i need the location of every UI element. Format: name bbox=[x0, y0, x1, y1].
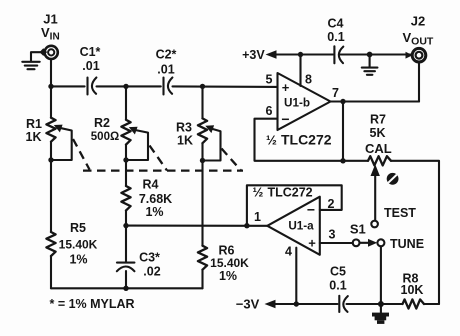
svg-text:10K: 10K bbox=[401, 283, 424, 297]
wire pin 4 down to -3V rail bbox=[295, 248, 297, 304]
svg-text:R3: R3 bbox=[176, 121, 192, 135]
+3V supply arrow bbox=[242, 48, 411, 62]
wire R2 top bbox=[125, 86, 127, 119]
dashed gang link R2 bbox=[150, 146, 168, 171]
ground at J1 bbox=[22, 52, 44, 69]
wire pin 7 output bbox=[331, 100, 420, 102]
svg-text:1: 1 bbox=[254, 210, 261, 224]
svg-text:4: 4 bbox=[285, 245, 292, 259]
svg-text:R7: R7 bbox=[370, 113, 386, 127]
resistor R6 bbox=[198, 244, 249, 284]
node ground tap bbox=[367, 52, 373, 58]
node at J1 column bbox=[48, 84, 53, 89]
node feedback tap bbox=[244, 223, 249, 228]
svg-text:1%: 1% bbox=[145, 205, 163, 219]
wire R8 to right edge bbox=[424, 303, 439, 305]
dashed gang link R3 bbox=[222, 149, 242, 172]
wiper of R3 bbox=[203, 125, 221, 160]
svg-text:½ TLC272: ½ TLC272 bbox=[253, 184, 313, 199]
svg-text:½ TLC272: ½ TLC272 bbox=[266, 132, 332, 148]
node at R2 column bbox=[123, 84, 128, 89]
wire J1 to top rail bbox=[50, 59, 52, 86]
wire top rail segment 2 bbox=[97, 85, 161, 87]
connector J1 bbox=[39, 46, 57, 59]
svg-text:15.40K: 15.40K bbox=[210, 256, 249, 270]
wire J2 down to pin7 rail bbox=[418, 63, 420, 102]
wire R3 node down to R6 (crosses pin1 wire) bbox=[201, 143, 203, 246]
node TUNE/ground bbox=[378, 301, 384, 307]
svg-text:+: + bbox=[308, 236, 316, 251]
svg-text:CAL: CAL bbox=[365, 141, 392, 156]
svg-text:15.40K: 15.40K bbox=[59, 238, 98, 252]
ground (C4/J2) bbox=[362, 55, 378, 75]
svg-text:TUNE: TUNE bbox=[390, 237, 424, 251]
svg-text:C3*: C3* bbox=[139, 251, 160, 265]
wiper of R2 bbox=[126, 127, 148, 160]
wire pin7 node down to R7 rail bbox=[342, 102, 344, 161]
svg-text:1%: 1% bbox=[219, 269, 237, 283]
wire pin 3 to S1 bbox=[320, 242, 353, 244]
svg-text:C5: C5 bbox=[330, 265, 346, 279]
wire -3V rail to R8 bbox=[381, 303, 403, 305]
dashed gang link R1 bbox=[73, 139, 90, 170]
label J2 / VOUT bbox=[403, 14, 434, 48]
svg-text:2: 2 bbox=[328, 197, 335, 211]
capacitor C2 bbox=[156, 48, 177, 95]
node pin 8 bbox=[298, 52, 303, 57]
op-amp U1-b bbox=[278, 73, 331, 130]
svg-text:TEST: TEST bbox=[384, 206, 416, 220]
node pin 7 bbox=[340, 99, 345, 104]
wire R5 to bottom rail bbox=[50, 256, 52, 288]
resistor R2 bbox=[91, 116, 131, 145]
node R1 bottom bbox=[48, 157, 53, 162]
resistor R3 bbox=[176, 118, 207, 147]
wire feedback loop pin1 to pin2 bbox=[247, 185, 342, 225]
switch S1 bbox=[350, 222, 385, 247]
wire C3 to bottom rail bbox=[125, 271, 127, 288]
node R3 bottom bbox=[200, 158, 205, 163]
svg-text:7: 7 bbox=[332, 86, 339, 100]
svg-text:3: 3 bbox=[329, 228, 336, 242]
capacitor C5 bbox=[329, 265, 347, 313]
svg-text:+3V: +3V bbox=[242, 48, 265, 62]
svg-text:1%: 1% bbox=[69, 253, 87, 267]
svg-text:−3V: −3V bbox=[236, 297, 260, 312]
trimmer screw head bbox=[387, 173, 399, 185]
wire node to C3 bbox=[125, 226, 127, 262]
op-amp U1-a bbox=[267, 197, 320, 255]
svg-text:1K: 1K bbox=[177, 134, 193, 148]
wiper of R1 bbox=[51, 125, 72, 160]
node pin 4 bbox=[294, 301, 299, 306]
wire node R4 to pin 1 bbox=[126, 225, 267, 227]
wire R2 node to R4 bbox=[125, 145, 127, 186]
wire pin 8 to +3V rail bbox=[299, 55, 301, 87]
node R2 bottom bbox=[123, 157, 128, 162]
resistor R1 bbox=[26, 117, 56, 144]
dashed gang bus bbox=[83, 169, 243, 171]
resistor R4 bbox=[121, 178, 172, 220]
wire R4 to node bbox=[125, 211, 127, 226]
svg-text:S1: S1 bbox=[350, 222, 366, 237]
svg-text:.01: .01 bbox=[82, 59, 99, 73]
node R7 left bbox=[340, 158, 345, 163]
svg-text:7.68K: 7.68K bbox=[139, 192, 172, 206]
svg-text:* = 1% MYLAR: * = 1% MYLAR bbox=[50, 297, 135, 311]
svg-text:.01: .01 bbox=[157, 63, 174, 77]
wire R2? no: wire J1-col down to R1 bbox=[50, 86, 52, 117]
svg-text:+: + bbox=[282, 80, 290, 95]
wire R7 rail left bbox=[343, 160, 368, 162]
svg-text:C1*: C1* bbox=[80, 45, 101, 59]
svg-text:−: − bbox=[307, 202, 315, 218]
wire top rail segment 3 (to pin 5) bbox=[173, 85, 278, 88]
svg-text:J2: J2 bbox=[411, 14, 425, 29]
svg-text:5K: 5K bbox=[370, 126, 386, 140]
capacitor C1 bbox=[80, 45, 101, 95]
wire R1 node to R5 bbox=[50, 142, 52, 232]
svg-text:6: 6 bbox=[266, 104, 273, 118]
svg-text:C4: C4 bbox=[328, 17, 344, 31]
node C3 bottom bbox=[123, 286, 128, 291]
connector J2 bbox=[406, 48, 426, 62]
svg-text:U1-b: U1-b bbox=[284, 97, 310, 110]
-3V supply arrow bbox=[236, 297, 338, 312]
wire R6 to bottom rail bbox=[201, 270, 203, 289]
wire C5 to TUNE node bbox=[347, 303, 381, 305]
svg-text:500Ω: 500Ω bbox=[91, 131, 119, 143]
wire R7 rail right + right edge down bbox=[391, 161, 439, 304]
capacitor C3 bbox=[117, 251, 161, 279]
svg-text:−: − bbox=[281, 111, 289, 127]
wire top rail segment 1 bbox=[51, 85, 85, 87]
resistor R5 bbox=[46, 221, 97, 267]
wire pin 6 to R7 node bbox=[255, 119, 344, 161]
wire TUNE node down bbox=[380, 246, 382, 304]
svg-text:R2: R2 bbox=[94, 116, 110, 130]
terminal TEST bbox=[371, 206, 416, 228]
node R4 bottom bbox=[123, 223, 128, 228]
wiper of R7 (to TEST) bbox=[371, 164, 380, 220]
svg-text:5: 5 bbox=[266, 73, 273, 87]
svg-text:8: 8 bbox=[305, 73, 312, 87]
svg-text:0.1: 0.1 bbox=[327, 30, 344, 44]
ground (earth, below S1) bbox=[372, 304, 389, 324]
resistor R7 bbox=[365, 113, 392, 166]
svg-text:R5: R5 bbox=[70, 221, 86, 235]
svg-text:.02: .02 bbox=[143, 265, 160, 279]
resistor R8 bbox=[401, 272, 424, 309]
capacitor C4 bbox=[327, 17, 344, 64]
svg-text:1K: 1K bbox=[26, 130, 42, 144]
wire bottom-left rail bbox=[51, 287, 203, 289]
svg-text:U1-a: U1-a bbox=[288, 220, 314, 233]
node at R3 column bbox=[200, 84, 205, 89]
wire R3 top bbox=[201, 86, 203, 118]
svg-text:0.1: 0.1 bbox=[329, 279, 346, 293]
svg-text:C2*: C2* bbox=[156, 48, 177, 62]
svg-text:R1: R1 bbox=[26, 117, 42, 131]
svg-text:R4: R4 bbox=[143, 178, 159, 192]
label J1 / VIN bbox=[41, 12, 60, 43]
